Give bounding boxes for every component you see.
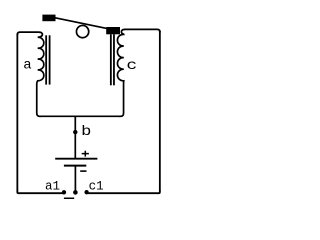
- pivot circle: [76, 25, 88, 37]
- core of coil a (iron core line 2): [49, 35, 51, 84]
- wire: top-right segment from coil c to right rail: [125, 29, 160, 32]
- wire: bottom-left segment (left rail corner to node a1): [17, 191, 64, 194]
- label -: [80, 170, 86, 172]
- contact block (left armature stop): [42, 15, 55, 22]
- node battery terminal dot: [73, 190, 78, 195]
- node c1 (terminal dot): [84, 190, 88, 194]
- wire: junction down through node b to battery: [74, 116, 76, 158]
- svg-text:a: a: [23, 58, 31, 74]
- coil a winding (4 loops): [37, 32, 44, 116]
- label +: [82, 151, 89, 157]
- svg-text:c1: c1: [89, 180, 104, 194]
- wire: top-left segment to coil a: [17, 32, 39, 35]
- key contact bar: [64, 198, 74, 200]
- wire: bottom-right segment (right rail corner to node c1): [87, 191, 160, 194]
- core of coil a (iron core line 1): [45, 35, 47, 84]
- wire: joining coil bottoms: [40, 115, 121, 117]
- svg-text:c: c: [126, 57, 137, 73]
- node a1 (terminal dot): [62, 190, 66, 194]
- wire: right rail: [159, 31, 161, 192]
- core of coil c (iron core line 2): [113, 34, 115, 85]
- battery positive plate: [55, 158, 97, 160]
- svg-text:b: b: [81, 123, 91, 139]
- coil c winding (4 loops): [117, 29, 125, 116]
- wire: battery to bottom junction: [74, 166, 76, 193]
- contact block (right, on coil c core): [106, 27, 120, 34]
- svg-text:a1: a1: [45, 180, 60, 194]
- core of coil c (iron core line 1): [110, 34, 112, 85]
- wire: left rail: [16, 34, 18, 192]
- lever (vibrating arm): [55, 18, 107, 29]
- node b (junction dot): [73, 130, 77, 134]
- battery negative plate: [64, 165, 86, 167]
